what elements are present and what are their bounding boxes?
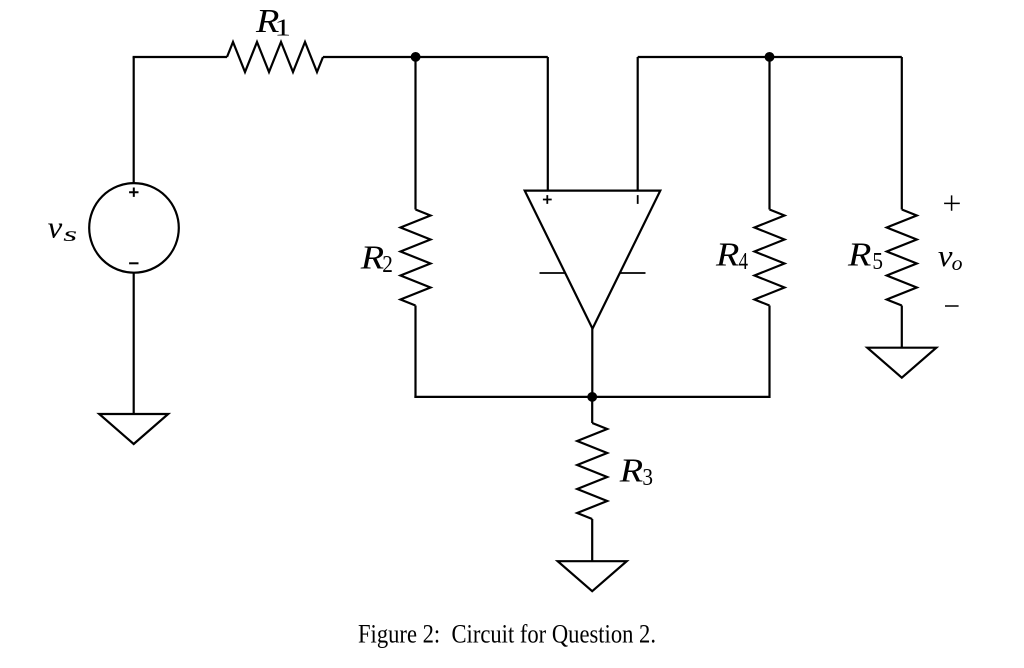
wire: op-amp plus input lead from top rail bbox=[547, 57, 549, 191]
label plus of vo bbox=[944, 195, 960, 210]
voltage source VS circle bbox=[89, 183, 179, 273]
node B junction dot (op-amp output node) bbox=[587, 392, 597, 402]
resistor R5 bbox=[887, 210, 917, 306]
resistor R2 bbox=[401, 210, 431, 306]
node C junction dot bbox=[765, 52, 775, 62]
op-amp plus input mark bbox=[543, 195, 552, 204]
node A junction dot bbox=[411, 52, 421, 62]
svg-text:Figure 2: Circuit for Questio: Figure 2: Circuit for Question 2. bbox=[358, 619, 656, 649]
wire: op-amp minus input lead up to top rail bbox=[637, 57, 639, 191]
resistor R4 bbox=[755, 210, 785, 306]
wire: node B down to R3 bbox=[591, 397, 593, 423]
svg-text:2: 2 bbox=[382, 251, 393, 278]
voltage source minus mark bbox=[129, 262, 138, 264]
resistor R1 bbox=[227, 42, 323, 72]
svg-text:3: 3 bbox=[642, 464, 653, 491]
svg-text:R: R bbox=[715, 236, 740, 273]
wire: top rail right segment through node C to R5 bbox=[638, 56, 902, 58]
svg-text:o: o bbox=[952, 251, 963, 274]
resistor R3 bbox=[577, 423, 607, 519]
ground under source bbox=[99, 414, 168, 444]
svg-text:1: 1 bbox=[275, 15, 292, 42]
wire: source bottom lead to ground bbox=[133, 273, 135, 415]
wire: top rail left segment to R1 bbox=[133, 56, 227, 58]
svg-text:R: R bbox=[619, 452, 644, 489]
wire: node C down to R4 bbox=[768, 57, 770, 210]
svg-text:4: 4 bbox=[739, 248, 748, 275]
wire: R4 bottom to bottom rail bbox=[768, 306, 770, 399]
wire: op-amp output lead down to node B bbox=[591, 329, 593, 398]
wire: bottom rail from R2 to R4 bbox=[414, 396, 769, 398]
op-amp U1 triangle bbox=[525, 191, 661, 329]
svg-text:R: R bbox=[360, 239, 385, 276]
op-amp left power stub bbox=[540, 272, 566, 274]
svg-text:s: s bbox=[63, 223, 77, 246]
op-amp minus input mark bbox=[637, 195, 639, 204]
svg-text:v: v bbox=[48, 211, 64, 244]
svg-text:5: 5 bbox=[872, 248, 883, 275]
svg-text:R: R bbox=[847, 236, 872, 273]
wire: R5 top lead bbox=[901, 57, 903, 210]
wire: R2 bottom down to bottom rail bbox=[414, 306, 416, 399]
wire: R5 bottom lead to ground bbox=[901, 306, 903, 348]
ground under R5 bbox=[867, 348, 936, 378]
wire: node A down to R2 bbox=[414, 57, 416, 210]
voltage source plus mark bbox=[129, 188, 138, 197]
wire: R3 bottom lead to ground bbox=[591, 519, 593, 561]
wire: source top lead up to top rail bbox=[133, 57, 135, 183]
label minus of vo bbox=[945, 305, 959, 307]
wire: top rail from R1 through node A to op-amp plus lead bbox=[323, 56, 548, 58]
op-amp right power stub bbox=[620, 272, 646, 274]
ground under R3 bbox=[558, 561, 627, 591]
